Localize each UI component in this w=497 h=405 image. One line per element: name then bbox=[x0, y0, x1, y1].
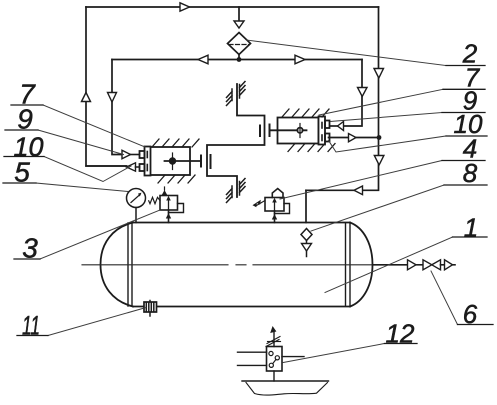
leader lines bbox=[36, 40, 458, 363]
arrow right on middle line bbox=[295, 55, 305, 64]
arrow on top line bbox=[180, 3, 190, 11]
stem of regulator 4 bbox=[274, 211, 276, 223]
centerline of tank bbox=[82, 264, 372, 266]
arrow down on second vertical bbox=[108, 93, 117, 103]
coupling triangle bbox=[445, 260, 453, 270]
wire into upper port tab bbox=[331, 125, 338, 127]
tank (air receiver, item 1) bbox=[101, 223, 373, 307]
shut-off valve bowtie item 6 bbox=[423, 260, 432, 270]
svg-text:1: 1 bbox=[464, 213, 478, 243]
svg-text:8: 8 bbox=[463, 158, 478, 188]
bypass loop of regulator 3 bbox=[169, 204, 184, 213]
wire right outer vertical bbox=[306, 7, 379, 190]
label underlines bbox=[3, 66, 493, 344]
leader 7 left bbox=[43, 105, 145, 147]
leader 7 right bbox=[319, 89, 443, 115]
check valve item 8 on tank top bbox=[301, 229, 312, 257]
hatching right cylinder bottom bbox=[288, 144, 335, 152]
adjustment triangle on top of regulator 3 bbox=[162, 190, 168, 196]
wire vertical pipe to tank x=306 bbox=[305, 190, 307, 222]
wire branch x=362 down to right cylinder upper port bbox=[344, 60, 363, 127]
stub line right of item 12 bbox=[282, 356, 304, 358]
hatching left cylinder top bbox=[152, 139, 199, 183]
svg-text:6: 6 bbox=[463, 299, 478, 329]
leader 4 bbox=[280, 161, 442, 200]
gauge M1 (manometer, item 5) bbox=[127, 189, 146, 223]
linkage Z-lever between cylinders bbox=[207, 84, 265, 197]
leader 10 right bbox=[329, 136, 447, 152]
arrow right into left cylinder upper port bbox=[122, 150, 131, 158]
leader 9 left bbox=[38, 130, 124, 155]
upper port tab bbox=[325, 121, 330, 129]
leader 10 left bbox=[44, 157, 131, 182]
leader 8 bbox=[311, 185, 444, 231]
lower port tab left bbox=[140, 164, 145, 171]
arrow inside regulator 4 bbox=[274, 202, 276, 210]
stem of regulator 3 bbox=[168, 210, 170, 223]
port fittings bbox=[321, 123, 323, 129]
upper port tab left bbox=[140, 151, 145, 158]
stub lines left of item 12 bbox=[238, 352, 267, 365]
arrow down on right vertical upper bbox=[374, 69, 384, 79]
piston of right cylinder bbox=[299, 124, 301, 138]
wire second left vertical bbox=[112, 60, 122, 155]
stem and arrow above item 12 bbox=[273, 333, 275, 347]
pentagon hat on regulator 4 bbox=[272, 189, 283, 198]
leader 2 bbox=[247, 40, 447, 66]
base line bbox=[242, 380, 329, 382]
arrow down on branch x=362 bbox=[358, 88, 368, 97]
cylinder cap block right bbox=[319, 117, 326, 145]
arrow right on lower port line bbox=[349, 134, 357, 142]
piston rod of left cylinder bbox=[165, 160, 202, 162]
abutment bar right bbox=[259, 126, 261, 137]
arrow inside regulator 3 bbox=[168, 200, 170, 209]
arrow left into right cylinder upper port bbox=[338, 122, 344, 131]
leader 3 bbox=[40, 210, 160, 259]
filter diamond body bbox=[228, 33, 251, 55]
wire lower port to right vertical bbox=[356, 137, 379, 139]
wire right cylinder lower port line bbox=[329, 137, 349, 139]
right cylinder C2 bbox=[270, 117, 330, 145]
svg-text:12: 12 bbox=[386, 319, 415, 349]
anchor top fixed support bbox=[227, 82, 246, 106]
arrow down on right vertical lower bbox=[374, 156, 384, 166]
stem below item 12 bbox=[273, 371, 275, 381]
filter F feed line bbox=[238, 7, 240, 21]
bowl under base bbox=[246, 383, 328, 396]
arrow up on left vertical bbox=[82, 93, 91, 102]
leader 11 bbox=[48, 308, 146, 336]
right head of tank bbox=[350, 223, 373, 307]
regulator item 4 (pressure reducing valve) bbox=[253, 189, 290, 223]
hatching right cylinder top bbox=[282, 109, 335, 152]
leader 9 right bbox=[331, 113, 443, 122]
leader 12 bbox=[283, 344, 385, 363]
lower port tab bbox=[325, 134, 330, 142]
arrow down into filter bbox=[234, 21, 244, 28]
svg-text:11: 11 bbox=[22, 311, 40, 341]
leader 6 bbox=[431, 271, 458, 325]
port fittings left bbox=[146, 152, 148, 158]
outlet line and valves bbox=[373, 260, 456, 270]
hatching left cylinder bottom bbox=[158, 175, 195, 183]
wire filter to junction bbox=[238, 55, 240, 60]
leader 5 bbox=[36, 183, 128, 192]
svg-text:9: 9 bbox=[17, 104, 33, 135]
leader 1 bbox=[325, 237, 453, 293]
left cylinder C1 bbox=[140, 147, 202, 176]
arrow left on y=190 line bbox=[354, 186, 363, 195]
weld seams right bbox=[346, 223, 351, 306]
piston rod of right cylinder bbox=[270, 129, 307, 131]
wire port lines to left cylinder bbox=[131, 154, 140, 156]
regulator item 3 (pressure reducing valve) bbox=[149, 187, 184, 223]
weld seams left bbox=[128, 223, 132, 306]
arrow left on left cylinder lower port bbox=[127, 163, 136, 171]
abutment bar left bbox=[210, 155, 212, 168]
filter element dashed line bbox=[229, 44, 249, 46]
arrow left on middle line bbox=[198, 55, 208, 64]
anchor bottom fixed support bbox=[227, 179, 246, 203]
wire lower port line bbox=[86, 166, 140, 167]
drain valve item 11 bbox=[144, 301, 157, 317]
node junction lower port right bbox=[377, 135, 382, 140]
wire top supply line bbox=[86, 6, 379, 8]
gauge stem bbox=[135, 208, 137, 223]
bypass loop of regulator 4 bbox=[275, 204, 290, 214]
spring of regulator 3 bbox=[149, 197, 160, 203]
wire left outer vertical bbox=[86, 7, 127, 166]
svg-text:3: 3 bbox=[22, 233, 38, 264]
left head of tank bbox=[101, 223, 134, 307]
condensate drain unit item 12 bbox=[238, 326, 329, 395]
cylinder cap block left bbox=[145, 147, 151, 176]
node junction below filter bbox=[237, 57, 242, 62]
vent arrows of regulator 4 bbox=[257, 201, 266, 206]
piston of left cylinder bbox=[172, 153, 174, 170]
wire middle horizontal line y=59.5 bbox=[112, 59, 362, 61]
svg-text:5: 5 bbox=[14, 157, 30, 188]
check valve triangle bbox=[408, 260, 417, 270]
labels bbox=[14, 79, 44, 341]
